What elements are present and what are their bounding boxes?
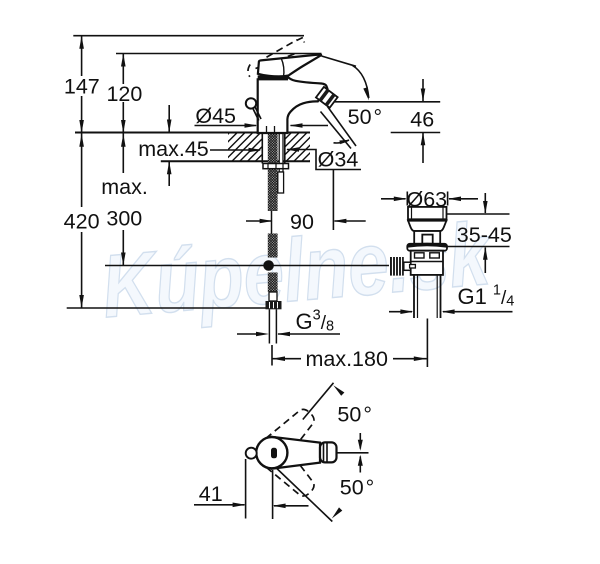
svg-text:90: 90 — [290, 210, 314, 234]
svg-text:35-45: 35-45 — [457, 223, 512, 247]
svg-text:Ø45: Ø45 — [195, 104, 236, 128]
svg-text:120: 120 — [106, 82, 142, 106]
svg-text:Ø63: Ø63 — [406, 187, 447, 211]
svg-text:300: 300 — [106, 207, 142, 231]
svg-text:Ø34: Ø34 — [318, 148, 359, 172]
svg-text:50°: 50° — [340, 476, 375, 500]
svg-text:41: 41 — [199, 482, 223, 506]
svg-text:max.180: max.180 — [305, 347, 388, 371]
svg-text:46: 46 — [410, 108, 434, 132]
svg-text:420: 420 — [64, 210, 100, 234]
svg-text:147: 147 — [64, 75, 100, 99]
svg-text:max.: max. — [101, 175, 148, 199]
svg-text:max.45: max.45 — [138, 137, 209, 161]
svg-text:50°: 50° — [348, 105, 383, 129]
svg-text:50°: 50° — [337, 403, 372, 427]
